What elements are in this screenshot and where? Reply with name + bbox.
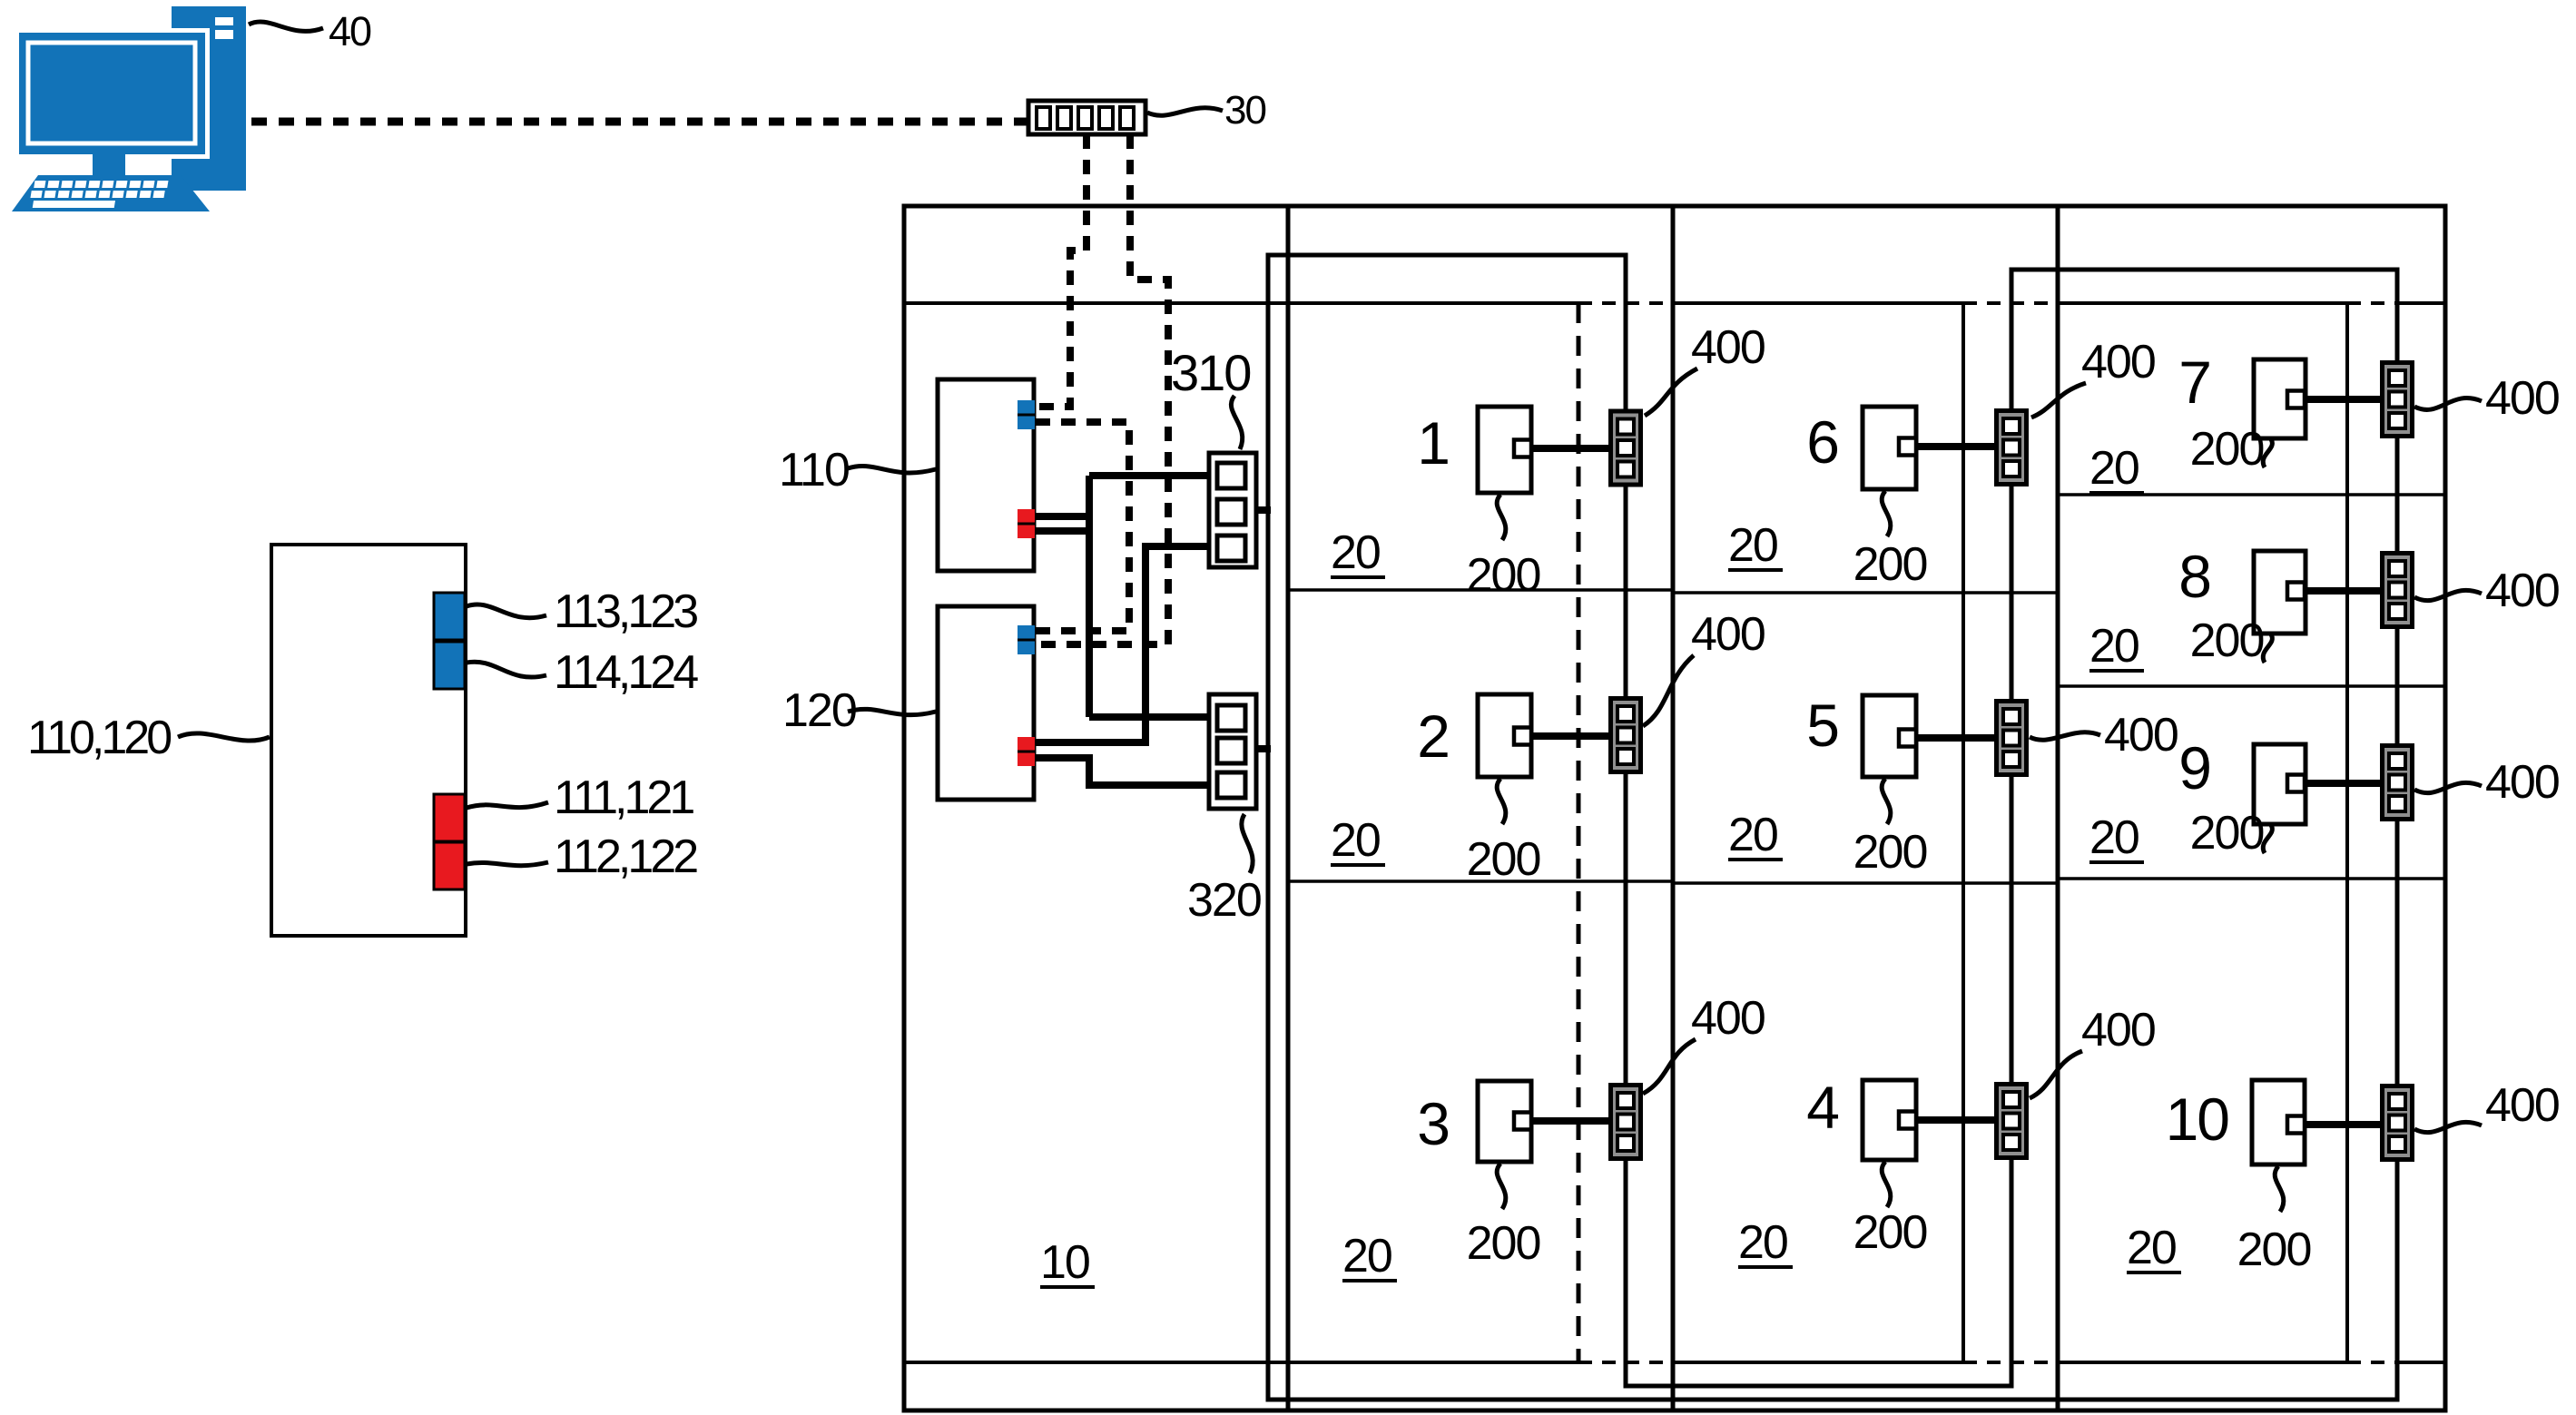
computer 40 (management server icon) xyxy=(12,6,246,211)
unit 1 wire to connector 400 xyxy=(1530,445,1619,452)
svg-text:400: 400 xyxy=(2485,372,2559,425)
label 110,120 leader squiggle xyxy=(178,733,270,741)
svg-text:400: 400 xyxy=(2485,1079,2559,1132)
svg-text:20: 20 xyxy=(1331,526,1380,579)
switch port 1 xyxy=(1037,107,1050,129)
unit 6 box 200 xyxy=(1863,407,1916,489)
switch port 4 xyxy=(1099,107,1113,129)
svg-text:4: 4 xyxy=(1806,1074,1838,1141)
unit 3 notch xyxy=(1514,1113,1531,1130)
column divider 10/20 x=1419 xyxy=(1286,206,1291,1410)
dashed communication line computer to switch 30 xyxy=(251,118,1028,126)
unit 1 box 200 xyxy=(1478,407,1531,493)
network switch 30 xyxy=(1028,101,1145,134)
unit 1 label 200 squiggle xyxy=(1497,495,1506,540)
switch port 2 xyxy=(1057,107,1071,129)
label 400 for unit2 connector squiggle xyxy=(1643,655,1694,726)
label 400 for unit5 connector squiggle xyxy=(2030,732,2100,740)
svg-text:400: 400 xyxy=(2485,756,2559,809)
unit 10 notch xyxy=(2287,1116,2305,1134)
label 400 for unit8 connector squiggle xyxy=(2414,590,2482,600)
svg-text:20: 20 xyxy=(2089,620,2138,673)
svg-text:20: 20 xyxy=(1342,1230,1391,1282)
unit 7 notch xyxy=(2287,391,2305,408)
svg-text:7: 7 xyxy=(2178,349,2210,416)
label 113,123 leader squiggle xyxy=(467,604,546,618)
svg-text:3: 3 xyxy=(1417,1090,1449,1157)
svg-text:200: 200 xyxy=(1467,549,1540,602)
keyboard keys xyxy=(29,181,169,208)
switch port 3 xyxy=(1078,107,1092,129)
unit 4 box 200 xyxy=(1863,1080,1916,1160)
unit 8 box 200 xyxy=(2254,551,2306,634)
label 400 for unit10 connector squiggle xyxy=(2414,1122,2482,1132)
module 120 red signal port xyxy=(1018,737,1035,766)
label 111,121 leader squiggle xyxy=(467,802,548,808)
label 40 leader squiggle xyxy=(249,22,323,31)
column divider 20/20 x=1843 xyxy=(1671,206,1676,1410)
unit 7 label 200 squiggle xyxy=(2263,439,2272,467)
unit 6 label 200 squiggle xyxy=(1882,491,1891,536)
switch port 5 xyxy=(1120,107,1134,129)
unit 10 connector 400 xyxy=(2383,1086,2413,1160)
monitor screen bezel line xyxy=(28,43,195,143)
label 400 for unit9 connector squiggle xyxy=(2414,782,2482,792)
bottom cell line y=1501 (dashed segments) xyxy=(1578,1361,2397,1364)
unit 5 wire to connector 400 xyxy=(1915,734,2005,742)
wire 110 red port upper to connector 310 port1 xyxy=(1034,476,1217,717)
cell divider col4 row1/row2 xyxy=(2058,493,2445,496)
module 120 blue communication port xyxy=(1018,625,1035,654)
module 110 red signal port xyxy=(1018,509,1035,538)
unit 2 wire to connector 400 xyxy=(1530,732,1619,740)
connector block 310 xyxy=(1209,453,1256,567)
communication bus loop (310/320 to all 400 connectors) xyxy=(1268,255,2397,1400)
svg-text:400: 400 xyxy=(1691,321,1765,374)
unit 3 label 200 squiggle xyxy=(1497,1164,1506,1209)
wire 120 red port lower to connector 320 port3 xyxy=(1034,758,1217,785)
unit 5 notch xyxy=(1899,730,1916,747)
legend blue port 114,124 xyxy=(434,642,465,689)
svg-text:111,121: 111,121 xyxy=(554,771,693,824)
wire 110 red port lower down to connector 320 port1 xyxy=(1034,531,1217,717)
svg-text:9: 9 xyxy=(2178,734,2210,801)
connector block 320 xyxy=(1209,694,1256,809)
enclosure inner top line y=334 (dashed segments) xyxy=(1578,301,2397,305)
unit 2 notch xyxy=(1514,728,1531,745)
svg-text:20: 20 xyxy=(1728,519,1777,572)
unit 10 label 200 squiggle xyxy=(2275,1166,2284,1212)
label 320 leader squiggle xyxy=(1242,814,1253,873)
wire 120 red port upper to connector 310 port3 xyxy=(1034,546,1217,742)
cell divider col2 row2/row3 xyxy=(1288,879,1673,883)
unit 7 wire to connector 400 xyxy=(2304,396,2391,403)
cell divider col4 row2/row3 xyxy=(2058,684,2445,688)
partition line col4 x=2586 xyxy=(2345,303,2349,1362)
unit 7 box 200 xyxy=(2254,359,2306,438)
svg-text:2: 2 xyxy=(1417,703,1449,770)
svg-text:200: 200 xyxy=(2190,423,2264,476)
monitor stand xyxy=(93,154,125,178)
svg-text:200: 200 xyxy=(2237,1223,2311,1276)
svg-text:113,123: 113,123 xyxy=(554,585,697,638)
svg-text:400: 400 xyxy=(1691,608,1765,661)
svg-text:1: 1 xyxy=(1417,409,1449,477)
label 120 leader squiggle xyxy=(848,709,936,714)
cell divider col2 row1/row2 xyxy=(1288,588,1673,592)
cell divider col3 row1/row2 xyxy=(1673,591,2058,594)
unit 1 notch xyxy=(1514,440,1531,457)
unit 5 box 200 xyxy=(1863,695,1916,777)
svg-text:30: 30 xyxy=(1224,88,1265,133)
svg-text:400: 400 xyxy=(2081,1004,2155,1056)
unit 3 connector 400 xyxy=(1611,1086,1641,1159)
unit 9 notch xyxy=(2287,775,2305,792)
cell divider col4 row3/row4 xyxy=(2058,877,2445,880)
unit 10 wire to connector 400 xyxy=(2303,1121,2391,1128)
unit 4 wire to connector 400 xyxy=(1915,1116,2005,1124)
unit 10 box 200 xyxy=(2252,1080,2305,1164)
label 110 leader squiggle xyxy=(848,466,936,472)
svg-text:110: 110 xyxy=(779,444,849,496)
unit 2 box 200 xyxy=(1478,694,1531,777)
svg-text:310: 310 xyxy=(1171,344,1250,401)
svg-text:200: 200 xyxy=(1853,826,1927,879)
svg-text:5: 5 xyxy=(1806,692,1838,759)
svg-text:114,124: 114,124 xyxy=(554,646,698,699)
unit 4 connector 400 xyxy=(1997,1085,2027,1158)
unit 3 wire to connector 400 xyxy=(1530,1117,1619,1125)
unit 8 connector 400 xyxy=(2383,554,2413,627)
svg-text:400: 400 xyxy=(1691,992,1765,1045)
column divider 20/20 x=2267 xyxy=(2056,206,2060,1410)
enclosure inner top line y=334 (solid segments) xyxy=(904,301,2347,305)
tower drive slots xyxy=(215,17,233,25)
unit 4 notch xyxy=(1899,1112,1916,1129)
unit 9 label 200 squiggle xyxy=(2263,825,2272,853)
svg-text:40: 40 xyxy=(329,8,371,54)
module 110 blue communication port xyxy=(1018,400,1035,429)
dashed line switch port5 to module 120 blue port (lower) xyxy=(1036,134,1168,644)
svg-text:20: 20 xyxy=(1738,1216,1787,1269)
svg-text:400: 400 xyxy=(2104,709,2178,762)
svg-text:110,120: 110,120 xyxy=(27,712,171,764)
svg-text:20: 20 xyxy=(1331,814,1380,867)
unit 4 label 200 squiggle xyxy=(1882,1162,1891,1207)
svg-text:112,122: 112,122 xyxy=(554,830,697,883)
unit 5 connector 400 xyxy=(1997,702,2027,775)
svg-text:20: 20 xyxy=(1728,809,1777,861)
label 30 leader squiggle xyxy=(1147,108,1223,115)
unit 2 label 200 squiggle xyxy=(1497,779,1506,824)
computer tower xyxy=(172,6,246,191)
unit 6 connector 400 xyxy=(1997,411,2027,485)
label 112,122 leader squiggle xyxy=(467,862,548,866)
monitor body xyxy=(15,28,210,159)
svg-text:200: 200 xyxy=(1467,1217,1540,1270)
dashed line module 110 blue port to module 120 blue port xyxy=(1036,422,1129,631)
legend red port 112,122 xyxy=(434,842,465,889)
svg-text:200: 200 xyxy=(1467,833,1540,886)
unit 6 wire to connector 400 xyxy=(1915,443,2005,450)
svg-text:400: 400 xyxy=(2485,565,2559,617)
svg-text:20: 20 xyxy=(2127,1222,2176,1274)
label 400 for unit7 connector squiggle xyxy=(2414,398,2482,410)
keyboard xyxy=(12,175,210,211)
unit 9 box 200 xyxy=(2254,744,2306,824)
partition line col3 x=2163 xyxy=(1961,303,1965,1362)
unit 7 connector 400 xyxy=(2383,363,2413,437)
bottom cell line y=1501 (solid segments) xyxy=(904,1361,2445,1364)
unit 8 label 200 squiggle xyxy=(2263,634,2272,663)
enclosure inner top line y=334 right solid end xyxy=(2397,301,2445,305)
module 120 (slave) xyxy=(938,606,1035,800)
unit 3 box 200 xyxy=(1478,1081,1531,1162)
module 110 (master) xyxy=(938,379,1035,571)
cell divider col3 row2/row3 xyxy=(1673,881,2058,885)
svg-text:10: 10 xyxy=(1040,1236,1089,1289)
svg-text:120: 120 xyxy=(782,684,856,737)
label 400 for unit1 connector squiggle xyxy=(1645,368,1697,416)
unit 5 label 200 squiggle xyxy=(1882,779,1891,824)
svg-text:200: 200 xyxy=(1853,538,1927,591)
wire connector 310 port2 to bus loop xyxy=(1244,506,1271,514)
unit 2 connector 400 xyxy=(1611,699,1641,772)
legend blue port 113,123 xyxy=(434,593,465,640)
svg-text:200: 200 xyxy=(2190,614,2264,667)
svg-text:6: 6 xyxy=(1806,408,1838,476)
svg-text:200: 200 xyxy=(2190,807,2264,860)
svg-text:200: 200 xyxy=(1853,1206,1927,1259)
svg-text:20: 20 xyxy=(2089,811,2138,864)
svg-text:400: 400 xyxy=(2081,336,2155,388)
svg-text:20: 20 xyxy=(2089,442,2138,495)
unit 6 notch xyxy=(1899,438,1916,456)
unit 9 connector 400 xyxy=(2383,746,2413,820)
legend red port 111,121 xyxy=(434,794,465,841)
unit 9 wire to connector 400 xyxy=(2304,780,2391,787)
svg-text:10: 10 xyxy=(2166,1086,2229,1153)
svg-text:320: 320 xyxy=(1187,874,1261,927)
label 400 for unit4 connector squiggle xyxy=(2030,1051,2082,1098)
label 400 for unit6 connector squiggle xyxy=(2031,383,2086,418)
label 310 leader squiggle xyxy=(1231,396,1242,449)
unit 8 wire to connector 400 xyxy=(2304,587,2391,594)
wire connector 320 port2 to bus loop xyxy=(1244,745,1271,752)
label 400 for unit3 connector squiggle xyxy=(1643,1039,1696,1094)
dashed line switch port3 to module 110 blue port (upper) xyxy=(1036,134,1086,407)
legend module detail box 110,120 xyxy=(271,545,466,936)
svg-text:8: 8 xyxy=(2178,543,2210,610)
unit 1 connector 400 xyxy=(1611,411,1641,485)
unit 8 notch xyxy=(2287,583,2305,600)
switchboard enclosure outer box xyxy=(904,206,2445,1410)
dashed partition line col2 x=1739 xyxy=(1577,303,1581,1362)
label 114,124 leader squiggle xyxy=(467,662,546,677)
